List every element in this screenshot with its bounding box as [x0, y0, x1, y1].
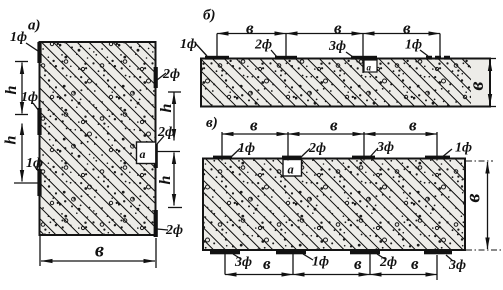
electrode 1F dashed (fig b, 4th): [426, 56, 452, 60]
dimension v span2 (fig v top): [288, 116, 364, 161]
centerline extension top-right (fig v): [466, 160, 493, 162]
label 1F mid-left: [21, 90, 39, 111]
label 2F bottom-right: [157, 223, 183, 238]
electrode 1F top-right (fig v): [425, 156, 450, 160]
svg-text:1ф: 1ф: [10, 30, 27, 45]
svg-text:1ф: 1ф: [26, 156, 43, 171]
svg-text:в: в: [263, 254, 271, 273]
svg-text:3ф: 3ф: [376, 140, 394, 155]
label 3F (fig b): [328, 39, 353, 57]
electrode 3F bottom-right (fig v): [424, 250, 452, 254]
svg-text:в: в: [330, 116, 338, 135]
svg-text:h: h: [158, 103, 175, 112]
slab v (big horizontal slab, bottom right): [203, 159, 465, 251]
dimension h upper-right: [158, 92, 181, 141]
svg-text:а: а: [140, 147, 146, 161]
electrode 2F bottom (fig v): [350, 250, 380, 254]
label 2F bottom (fig v): [377, 254, 397, 270]
centerline extension bottom-right (fig v): [466, 249, 502, 251]
svg-text:в: в: [250, 116, 258, 135]
electrode 3F bottom (fig v, 1st): [210, 250, 240, 254]
svg-text:h: h: [3, 85, 20, 94]
svg-text:3ф: 3ф: [328, 39, 346, 54]
dimension v right (fig b): [466, 59, 496, 107]
label 2F (fig b): [254, 38, 277, 58]
electrode 1F bottom-left (fig a): [37, 169, 41, 196]
label 3F top (fig v): [369, 140, 394, 158]
slab a (vertical wall section): [40, 42, 156, 235]
electrode 2F top (fig v): [282, 156, 301, 160]
svg-text:h: h: [157, 175, 174, 184]
electrode 1F (fig b, 1st): [205, 56, 229, 60]
label 1F top (fig v): [230, 141, 255, 158]
svg-text:1ф: 1ф: [238, 141, 255, 156]
svg-text:в): в): [206, 115, 218, 131]
svg-text:1ф: 1ф: [21, 90, 38, 105]
dimension v span1 (fig v bottom): [225, 254, 293, 275]
electrode 3F (fig b): [351, 56, 377, 60]
svg-text:2ф: 2ф: [308, 141, 326, 156]
electrode 1F top-left (fig a): [37, 42, 41, 63]
dimension h lower-left: [3, 124, 40, 184]
label 1F top-right (fig v): [441, 141, 472, 159]
svg-text:в: в: [95, 240, 104, 262]
label 2F top (fig v): [300, 141, 326, 158]
dimension v span2 (fig b top): [286, 19, 363, 74]
electrode 2F top-right (fig a): [154, 67, 158, 88]
dimension v span3 (fig b top): [363, 19, 440, 57]
label 1F bottom (fig v): [303, 254, 329, 270]
electrode 1F bottom (fig v): [276, 250, 306, 254]
label 1F top-left: [10, 30, 38, 51]
slab b (horizontal slab, top right): [201, 59, 490, 107]
label 1F right (fig b): [405, 38, 428, 57]
svg-text:б): б): [203, 8, 215, 24]
electrode 1F mid-left (fig a): [37, 108, 41, 135]
dimension v span3 (fig v top): [364, 116, 437, 161]
label 2F mid-right: [157, 125, 175, 144]
dimension h upper-left: [3, 62, 28, 115]
svg-text:в: в: [411, 254, 419, 273]
svg-text:а: а: [288, 163, 294, 177]
electrode 1F top (fig v, 1st): [213, 156, 232, 160]
electrode 2F mid-right (fig a): [154, 144, 158, 168]
svg-text:в: в: [354, 254, 362, 273]
svg-text:1ф: 1ф: [405, 38, 422, 53]
electrode 2F bottom-right (fig a): [154, 210, 158, 237]
svg-text:в: в: [246, 19, 254, 38]
svg-text:3ф: 3ф: [448, 258, 466, 273]
svg-text:а: а: [367, 63, 372, 73]
svg-text:h: h: [3, 135, 20, 144]
label 2F top-right: [157, 67, 180, 82]
dimension v span1 (fig b top): [217, 19, 286, 57]
node box a (fig a, mid-right): [137, 142, 156, 164]
dimension v bottom (fig a): [40, 236, 156, 268]
node box a (fig v): [283, 160, 302, 177]
label 1F bottom-left: [26, 156, 43, 172]
label 3F bottom-right (fig v): [446, 255, 466, 273]
svg-text:3ф: 3ф: [234, 255, 252, 270]
svg-text:2ф: 2ф: [157, 125, 175, 140]
label 3F bottom (fig v): [233, 254, 252, 270]
svg-text:1ф: 1ф: [180, 37, 197, 52]
svg-text:а): а): [28, 18, 41, 34]
svg-text:в: в: [466, 81, 488, 90]
electrode 3F top (fig v): [352, 156, 375, 160]
svg-text:в: в: [403, 19, 411, 38]
dimension h lower-right: [157, 152, 183, 208]
svg-text:2ф: 2ф: [254, 38, 272, 53]
svg-text:в: в: [463, 193, 485, 202]
dimension v span1 (fig v top): [222, 116, 288, 161]
svg-text:1ф: 1ф: [455, 141, 472, 156]
node box a (fig b): [364, 60, 377, 73]
svg-text:в: в: [334, 19, 342, 38]
dimension v span2 (fig v bottom): [293, 254, 370, 275]
dimension v right (fig v): [463, 162, 488, 249]
dimension v span3 (fig v bottom): [370, 254, 437, 280]
svg-text:1ф: 1ф: [312, 255, 329, 270]
svg-text:в: в: [409, 116, 417, 135]
label 1F (fig b): [180, 37, 207, 56]
electrode 2F (fig b): [275, 56, 297, 60]
